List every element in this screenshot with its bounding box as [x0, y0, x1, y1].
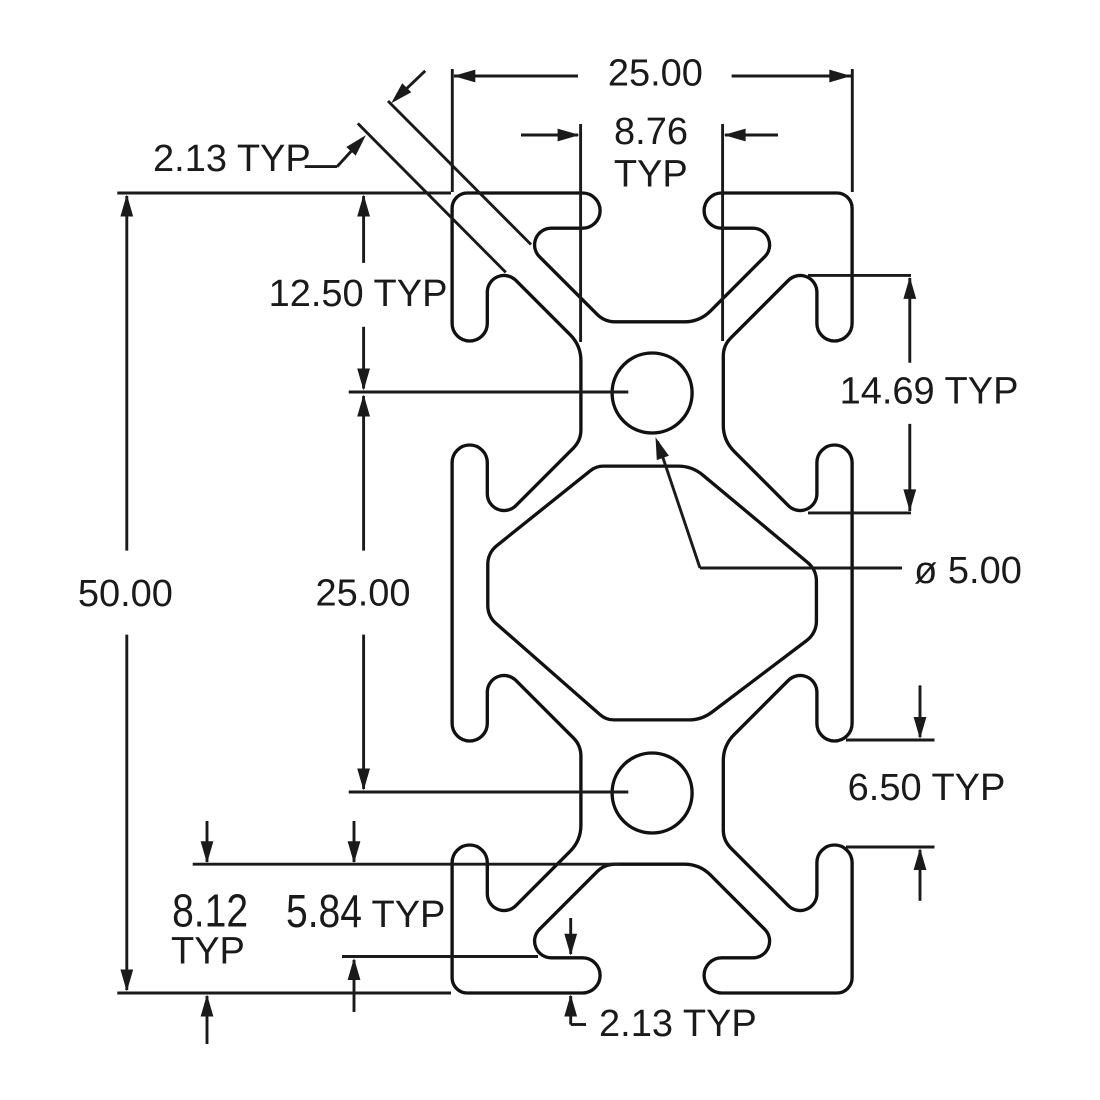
dimension 50.00 overall height with extension lines	[78, 193, 451, 993]
svg-text:8.76: 8.76	[614, 111, 688, 153]
dimension 14.69 TYP side slot channel width	[808, 275, 1018, 513]
svg-text:2.13 TYP: 2.13 TYP	[153, 138, 311, 180]
dimension 6.50 TYP slot opening width	[846, 685, 1005, 900]
leader 2.13 TYP web thickness with diagonal extension lines	[153, 71, 531, 273]
upper hole ø5.00	[612, 353, 692, 433]
T-slot extrusion profile outer outline (25x50, six slots)	[452, 193, 852, 993]
svg-text:TYP: TYP	[372, 894, 446, 936]
dimension 25.00 overall width, with extension lines and arrowheads	[452, 52, 852, 192]
dimension 8.12 TYP slot depth with floor extension line	[171, 821, 620, 1044]
dimension 5.84 TYP channel height with ceiling extension line	[286, 821, 538, 1012]
svg-text:ø 5.00: ø 5.00	[914, 550, 1022, 592]
svg-text:TYP: TYP	[614, 153, 688, 195]
dimension 25.00 hole-to-hole spacing	[315, 395, 628, 793]
leader ø 5.00 hole diameter callout	[656, 437, 1022, 592]
lower hole ø5.00	[612, 753, 692, 833]
center cavity octagon	[488, 466, 817, 720]
svg-text:8.12: 8.12	[172, 884, 248, 936]
svg-text:50.00: 50.00	[78, 573, 173, 615]
svg-text:TYP: TYP	[171, 930, 245, 972]
dimension 8.76 TYP, arrows and extension lines into top slot	[521, 111, 778, 342]
svg-text:14.69 TYP: 14.69 TYP	[840, 371, 1019, 413]
svg-text:6.50 TYP: 6.50 TYP	[848, 767, 1006, 809]
svg-text:25.00: 25.00	[315, 573, 410, 615]
svg-text:12.50 TYP: 12.50 TYP	[269, 273, 448, 315]
dimension 12.50 TYP from top face to upper hole center	[269, 195, 629, 393]
svg-text:25.00: 25.00	[608, 52, 703, 94]
leader 2.13 TYP lip thickness at bottom slot	[564, 918, 756, 1045]
svg-text:2.13 TYP: 2.13 TYP	[599, 1003, 757, 1045]
svg-text:5.84: 5.84	[286, 885, 362, 937]
